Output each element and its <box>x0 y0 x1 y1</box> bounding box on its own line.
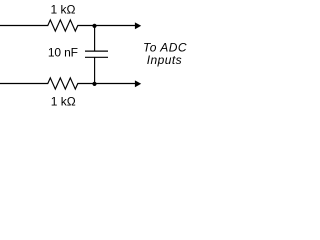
svg-text:1 kΩ: 1 kΩ <box>51 94 76 108</box>
svg-text:10 nF: 10 nF <box>48 46 78 60</box>
svg-text:Inputs: Inputs <box>147 53 182 67</box>
svg-text:1 kΩ: 1 kΩ <box>51 2 76 16</box>
